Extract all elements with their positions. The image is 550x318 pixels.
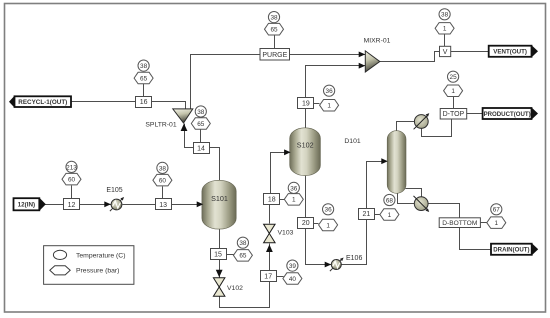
arrow into S101 (197, 201, 204, 207)
arrow into S102 (284, 149, 291, 155)
heat exchanger E105 (110, 196, 125, 211)
wire valve box V to VENT flag (451, 51, 489, 53)
wire indicator stub to box V (444, 35, 446, 47)
svg-text:1: 1 (388, 212, 392, 219)
stream box 18 (264, 194, 280, 205)
wire indicator stub to box 12 (71, 186, 73, 199)
wire S101 bottom to box 15 (219, 229, 221, 249)
svg-text:15: 15 (214, 252, 222, 259)
temperature indicator 38 (439, 9, 450, 20)
svg-text:65: 65 (140, 76, 148, 83)
temperature indicator 213 (66, 161, 77, 172)
vessel S102 (290, 128, 321, 176)
temperature indicator 36 (288, 182, 299, 193)
wire condenser to D-TOP box (422, 120, 452, 137)
svg-text:VENT(OUT): VENT(OUT) (493, 49, 527, 56)
wire S102 top to box 19 (305, 109, 307, 129)
svg-text:19: 19 (302, 100, 310, 107)
stream box 21 (359, 209, 375, 220)
temperature indicator 38 (138, 60, 149, 71)
wire S102 bottom to box 20 (305, 176, 307, 218)
svg-text:68: 68 (386, 197, 394, 204)
wire indicator stub to box 17 (277, 276, 284, 278)
wire RECYCL-1 flag to box 16 (72, 101, 137, 103)
stream box 19 (298, 98, 314, 109)
arrow into E105 (104, 201, 111, 207)
temperature indicator 38 (195, 106, 206, 117)
svg-text:38: 38 (239, 240, 247, 247)
stream box V (440, 46, 451, 56)
wire 12(IN) flag to box 12 (45, 204, 64, 206)
svg-text:PURGE: PURGE (262, 52, 287, 59)
svg-text:65: 65 (239, 253, 247, 260)
stream box 12 (64, 199, 80, 210)
io flag PRODUCT(OUT) (483, 107, 538, 119)
wire box 13 to S101 inlet (172, 204, 202, 206)
io flag DRAIN(OUT) (491, 243, 538, 255)
wire reboiler to D-BOTTOM box (429, 204, 460, 219)
column D101 (387, 131, 406, 194)
svg-text:D-BOTTOM: D-BOTTOM (442, 220, 477, 227)
pressure indicator 1 (444, 85, 463, 97)
temperature indicator 38 (268, 12, 279, 23)
temperature indicator 36 (323, 204, 334, 215)
svg-text:1: 1 (451, 88, 455, 95)
splitter SPLTR-01 (173, 109, 193, 123)
svg-text:1: 1 (326, 222, 330, 229)
svg-text:RECYCL-1(OUT): RECYCL-1(OUT) (18, 99, 67, 106)
svg-text:67: 67 (493, 207, 501, 214)
mixer MIXR-01 (365, 51, 380, 72)
valve V103 (264, 224, 276, 243)
pressure indicator 65 (191, 118, 210, 129)
wire indicator stub to box 19 (314, 103, 320, 105)
pressure indicator 65 (233, 250, 252, 262)
svg-text:65: 65 (270, 27, 278, 34)
arrow into mixer bottom inlet (359, 63, 366, 69)
svg-text:1: 1 (495, 220, 499, 227)
wire box 15 to valve V102 (219, 260, 221, 278)
svg-text:38: 38 (270, 15, 278, 22)
svg-text:38: 38 (159, 165, 167, 172)
svg-text:V: V (443, 49, 448, 56)
svg-text:D-TOP: D-TOP (443, 111, 465, 118)
wire mixer outlet to valve box V (380, 52, 440, 62)
wire indicator stub to box 15 (227, 254, 234, 256)
svg-text:Pressure (bar): Pressure (bar) (76, 268, 119, 275)
temperature indicator 25 (448, 71, 459, 82)
wire indicator stub to box 20 (314, 223, 319, 225)
wire indicator stub to PURGE box (274, 36, 276, 49)
svg-text:20: 20 (302, 220, 310, 227)
wire box 21 to column D101 feed (367, 162, 387, 209)
svg-text:E105: E105 (106, 187, 122, 194)
svg-text:38: 38 (140, 63, 148, 70)
io flag VENT(OUT) (489, 45, 538, 57)
wire E106 to box 21 (341, 220, 367, 265)
temperature indicator 68 (384, 194, 395, 205)
svg-text:25: 25 (450, 74, 458, 81)
stream box PURGE (260, 49, 290, 61)
stream box 15 (211, 249, 227, 260)
svg-text:14: 14 (197, 145, 205, 152)
svg-text:65: 65 (197, 121, 205, 128)
wire D-BOTTOM box to DRAIN flag (460, 228, 492, 250)
wire splitter top to PURGE box (191, 55, 261, 109)
svg-text:D101: D101 (344, 138, 360, 145)
wire splitter apex to box 14 (185, 124, 194, 148)
pressure indicator 65 (265, 23, 284, 35)
temperature indicator 39 (287, 260, 298, 271)
stream box 16 (136, 97, 152, 108)
pressure indicator 1 (435, 23, 454, 34)
pressure indicator 60 (62, 173, 81, 185)
valve V102 (213, 278, 225, 296)
pressure indicator 1 (284, 194, 303, 206)
wire box 18 to S102 inlet (271, 153, 290, 194)
svg-text:38: 38 (197, 109, 205, 116)
wire column side to reboiler top (406, 189, 422, 197)
pressure indicator 1 (320, 100, 339, 112)
wire PURGE box to mixer inlet (290, 54, 366, 56)
stream box 20 (298, 218, 314, 229)
pressure indicator 65 (134, 72, 153, 84)
svg-text:39: 39 (289, 263, 297, 270)
arrow into column D101 feed (381, 158, 388, 164)
stream box 13 (156, 199, 172, 210)
wire indicator stub to D-TOP box (453, 97, 455, 109)
wire indicator stub to D-BOTTOM box (481, 222, 487, 224)
wire indicator stub to box 13 (162, 187, 164, 199)
wire box 14 to S101 top (210, 148, 220, 182)
wire V102 to box 17 (220, 282, 270, 308)
pressure indicator 1 (319, 219, 338, 231)
svg-text:16: 16 (140, 99, 148, 106)
svg-text:60: 60 (68, 177, 76, 184)
legend box (44, 246, 134, 285)
svg-text:1: 1 (443, 26, 447, 33)
wire V103 to box 18 (269, 205, 271, 224)
wire box 16 to splitter top (152, 102, 186, 110)
pressure indicator 40 (283, 273, 302, 284)
svg-text:36: 36 (290, 185, 298, 192)
stream box D-TOP (440, 109, 467, 120)
vessel S101 (202, 180, 236, 229)
svg-text:S101: S101 (211, 194, 228, 203)
svg-text:60: 60 (159, 178, 167, 185)
arrow into splitter apex (181, 124, 188, 132)
pressure indicator 60 (153, 174, 172, 186)
arrow into V103 (266, 245, 273, 253)
svg-text:V102: V102 (227, 285, 243, 292)
svg-text:12: 12 (68, 202, 76, 209)
io flag RECYCL-1(OUT) (9, 96, 71, 108)
wire indicator stub to box 18 (280, 199, 285, 201)
wire indicator stub to box 14 (200, 130, 202, 143)
svg-text:Temperature (C): Temperature (C) (76, 252, 125, 259)
svg-text:36: 36 (325, 207, 333, 214)
stream box D-BOTTOM (439, 218, 480, 228)
stream box 14 (194, 143, 210, 154)
svg-text:17: 17 (264, 273, 272, 280)
svg-text:PRODUCT(OUT): PRODUCT(OUT) (484, 111, 531, 118)
reboiler on D101 (414, 196, 431, 213)
svg-text:SPLTR-01: SPLTR-01 (145, 122, 176, 129)
wire indicator stub to box 16 (143, 84, 145, 97)
svg-text:E106: E106 (346, 255, 362, 262)
svg-text:1: 1 (292, 197, 296, 204)
svg-text:36: 36 (326, 88, 334, 95)
pressure indicator 1 (487, 217, 506, 229)
wire box 19 to mixer inlet (306, 66, 366, 98)
svg-text:38: 38 (441, 12, 449, 19)
io flag 12(IN) (14, 198, 46, 211)
svg-text:13: 13 (159, 202, 167, 209)
wire box 17 to valve V103 (269, 244, 271, 271)
wire indicator stub to box 21 (375, 214, 380, 216)
temperature indicator 67 (491, 204, 502, 215)
wire box 12 to exchanger E105 (80, 204, 112, 206)
svg-text:S102: S102 (297, 141, 314, 150)
pressure indicator 1 (380, 209, 399, 220)
wire D-TOP box to PRODUCT flag (467, 113, 483, 115)
svg-text:MIXR-01: MIXR-01 (364, 38, 391, 45)
wire box 20 to exchanger E106 (306, 229, 332, 265)
stream box 17 (261, 271, 277, 282)
temperature indicator 38 (237, 237, 248, 248)
arrow into E106 (325, 262, 332, 268)
svg-text:V103: V103 (278, 230, 294, 237)
svg-text:213: 213 (66, 164, 77, 171)
temperature indicator 38 (157, 162, 168, 173)
condenser on D101 (414, 112, 431, 129)
heat exchanger E106 (330, 256, 345, 271)
svg-text:18: 18 (268, 197, 276, 204)
svg-text:12(IN): 12(IN) (18, 202, 36, 209)
wire E105 to box 13 (123, 204, 156, 206)
temperature indicator 36 (324, 85, 335, 96)
wire D101 top to condenser (397, 122, 415, 132)
wire column bottom to reboiler inlet (398, 192, 415, 204)
arrow into V102 (216, 270, 223, 278)
svg-text:1: 1 (327, 103, 331, 110)
arrow into mixer top inlet (359, 52, 366, 58)
svg-text:21: 21 (363, 211, 371, 218)
svg-text:40: 40 (289, 276, 297, 283)
svg-text:DRAIN(OUT): DRAIN(OUT) (493, 247, 529, 254)
